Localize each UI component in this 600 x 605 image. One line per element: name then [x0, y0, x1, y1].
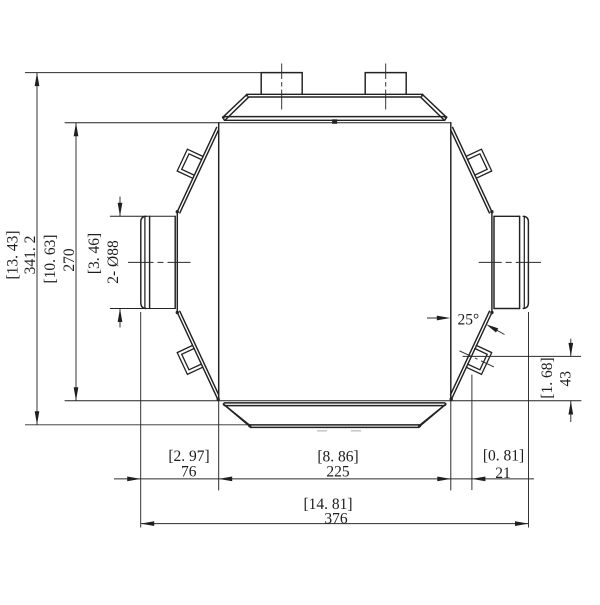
svg-text:[0. 81]: [0. 81]: [483, 447, 524, 464]
dimension and extension lines: [25, 73, 581, 528]
bottom dim 376 line: [141, 523, 529, 525]
left port collar lip: [141, 216, 146, 308]
dim 341.2 top extension: [25, 72, 261, 74]
dim 341.2 arrows: [35, 73, 40, 87]
body left edge: [218, 123, 220, 401]
bottom hood left slant: [223, 404, 251, 427]
bottom hood right slant: [418, 404, 446, 427]
octagon right face: [491, 212, 493, 313]
dim 376 arrows: [141, 521, 155, 526]
left stub center line: [281, 64, 283, 110]
dim 43 line and tails: [570, 339, 572, 422]
diagonal bottom-right double: [451, 311, 492, 400]
top hood right slant: [421, 95, 447, 121]
left port inner end: [174, 216, 176, 308]
left port top and bottom edges with extension: [110, 215, 175, 217]
top hood top plateau double line: [247, 94, 423, 97]
bottom hood bottom plateau double line: [249, 425, 420, 428]
right stub center line: [385, 64, 387, 110]
body top edge with left extension: [65, 122, 451, 124]
tab bottom-right: [466, 345, 492, 374]
ext from right port face: [528, 312, 530, 528]
svg-text:76: 76: [181, 463, 197, 480]
diagonal top-right double: [451, 127, 492, 212]
dim phi88 tails: [119, 197, 121, 328]
dim 341.2 bottom extension: [25, 424, 250, 426]
svg-text:2- Ø88: 2- Ø88: [105, 240, 122, 284]
25deg leader arrow at diagonal: [486, 324, 498, 332]
top hood left slant: [223, 95, 249, 121]
body right edge extension down: [450, 401, 452, 490]
bottom dim line arrows: [127, 477, 141, 482]
25deg leader arrow at body edge: [437, 316, 451, 321]
svg-text:376: 376: [324, 510, 348, 527]
right port center line: [479, 261, 541, 263]
body right edge: [450, 123, 452, 401]
bottom hood flange double line: [224, 403, 446, 406]
dim 43 top extension: [463, 355, 582, 357]
diagonal top-left double: [177, 127, 218, 212]
faint center-line remnants at bottom hood: [317, 430, 361, 432]
dim 43 arrows: [568, 343, 573, 357]
arrowheads: [35, 73, 574, 526]
bottom-right tab axis center line: [459, 351, 494, 367]
corner junction dots: [176, 94, 494, 428]
bottom dims line 76 225 21: [114, 478, 534, 480]
svg-text:[3. 46]: [3. 46]: [86, 233, 103, 274]
svg-text:43: 43: [558, 371, 575, 387]
dim 341.2 line: [36, 73, 38, 425]
ext from left port face: [140, 312, 142, 528]
dim phi88 arrows: [118, 203, 123, 217]
top hood flange double line: [224, 117, 446, 121]
diagonal bottom-left double: [177, 311, 218, 400]
25 deg leader lines: [427, 318, 505, 335]
octagon left face: [176, 212, 178, 313]
svg-text:[1. 68]: [1. 68]: [539, 357, 556, 398]
svg-text:225: 225: [326, 464, 350, 481]
left port center line: [128, 261, 191, 263]
svg-text:[10. 63]: [10. 63]: [42, 234, 59, 283]
body left edge extension down: [218, 401, 220, 490]
tab top-right: [466, 149, 492, 178]
right port inner end: [493, 216, 495, 308]
ext from bottom-right tab center: [471, 375, 473, 491]
dim 270 line: [75, 123, 77, 401]
body bottom edge with extensions both sides: [65, 400, 581, 402]
tab bottom-left: [177, 345, 203, 374]
center lines (dash-dot): [128, 64, 541, 367]
top stub right: [365, 73, 406, 95]
svg-text:21: 21: [495, 465, 511, 482]
svg-text:341. 2: 341. 2: [22, 236, 39, 275]
tab top-left: [177, 149, 203, 178]
svg-text:[13. 43]: [13. 43]: [5, 230, 22, 279]
top stub left: [261, 73, 302, 95]
svg-text:25°: 25°: [457, 312, 479, 329]
dim 270 arrows: [74, 123, 79, 137]
right port collar lip: [523, 216, 528, 308]
svg-text:270: 270: [61, 248, 78, 272]
right port top and bottom edges: [494, 215, 520, 217]
top center tick: [332, 119, 337, 124]
